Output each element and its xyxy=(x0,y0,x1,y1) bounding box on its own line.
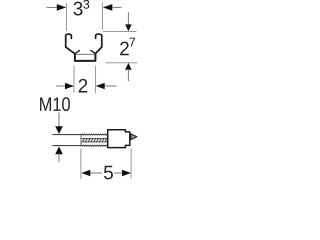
dimension text 3 xyxy=(74,2,83,16)
dimension 2 left arrow xyxy=(65,83,74,90)
thread top edge xyxy=(81,134,108,136)
dimension 2 left line xyxy=(56,85,66,87)
dimension 3-3 left line xyxy=(47,6,58,8)
thread core bottom line xyxy=(81,141,108,143)
dimension text 2 xyxy=(120,42,129,56)
dimension 5 line left segment xyxy=(90,172,102,174)
rail profile right hook xyxy=(96,34,102,47)
rail profile channel top inner line xyxy=(76,53,94,55)
rod bottom edge xyxy=(52,145,81,147)
M10 leader up arrow xyxy=(55,146,63,154)
rail profile bottom channel xyxy=(75,54,96,61)
dimension 5 right extension line xyxy=(130,149,132,179)
thread core top line xyxy=(81,137,108,139)
thread start boundary xyxy=(80,134,82,146)
rail profile left inner tick xyxy=(75,51,80,54)
dimension text 5 xyxy=(104,166,113,180)
rod top edge xyxy=(52,134,81,136)
dimension 3-3 left arrow xyxy=(57,4,67,11)
dimension 2-7 top extension line xyxy=(103,30,137,32)
dimension 5 left extension line xyxy=(80,149,82,179)
rail profile left diagonal xyxy=(66,47,75,54)
rail profile left hook xyxy=(66,34,72,47)
dimension 5 left arrow xyxy=(81,170,90,177)
thread label M10 xyxy=(40,97,70,111)
dimension 3-3 right extension line xyxy=(101,3,103,30)
M10 leader down arrow xyxy=(55,126,63,134)
thread hatch xyxy=(82,138,107,142)
dimension 2 right extension line xyxy=(95,66,97,93)
dimension text superscript 7 xyxy=(129,38,135,47)
rail profile right inner tick xyxy=(91,50,96,53)
dimension text 2 bottom xyxy=(79,79,88,93)
dimension 2 right line xyxy=(105,85,117,87)
dimension 2-7 up arrow xyxy=(125,63,132,70)
dimension 3-3 left extension line xyxy=(65,3,67,31)
rail profile right diagonal xyxy=(95,47,101,54)
anchor cone tip xyxy=(131,134,137,140)
dimension 2-7 bottom extension line xyxy=(106,62,138,64)
M10 leader down arrow shaft xyxy=(58,113,60,128)
dimension 2-7 down arrow xyxy=(125,24,132,31)
dimension 2 right arrow xyxy=(96,83,105,90)
dimension 3-3 right arrow xyxy=(103,4,113,11)
anchor head body xyxy=(108,130,130,148)
dimension text superscript 3 xyxy=(83,0,89,9)
thread bottom edge xyxy=(81,145,108,147)
dimension 2-7 up arrow shaft xyxy=(127,70,129,81)
dimension 3-3 right line xyxy=(112,6,122,8)
dimension 2-7 down arrow shaft xyxy=(127,12,129,25)
M10 leader up arrow shaft xyxy=(58,154,60,162)
dimension 5 line right segment xyxy=(114,172,123,174)
dimension 2 left extension line xyxy=(73,66,75,93)
dimension 5 right arrow xyxy=(122,170,131,177)
